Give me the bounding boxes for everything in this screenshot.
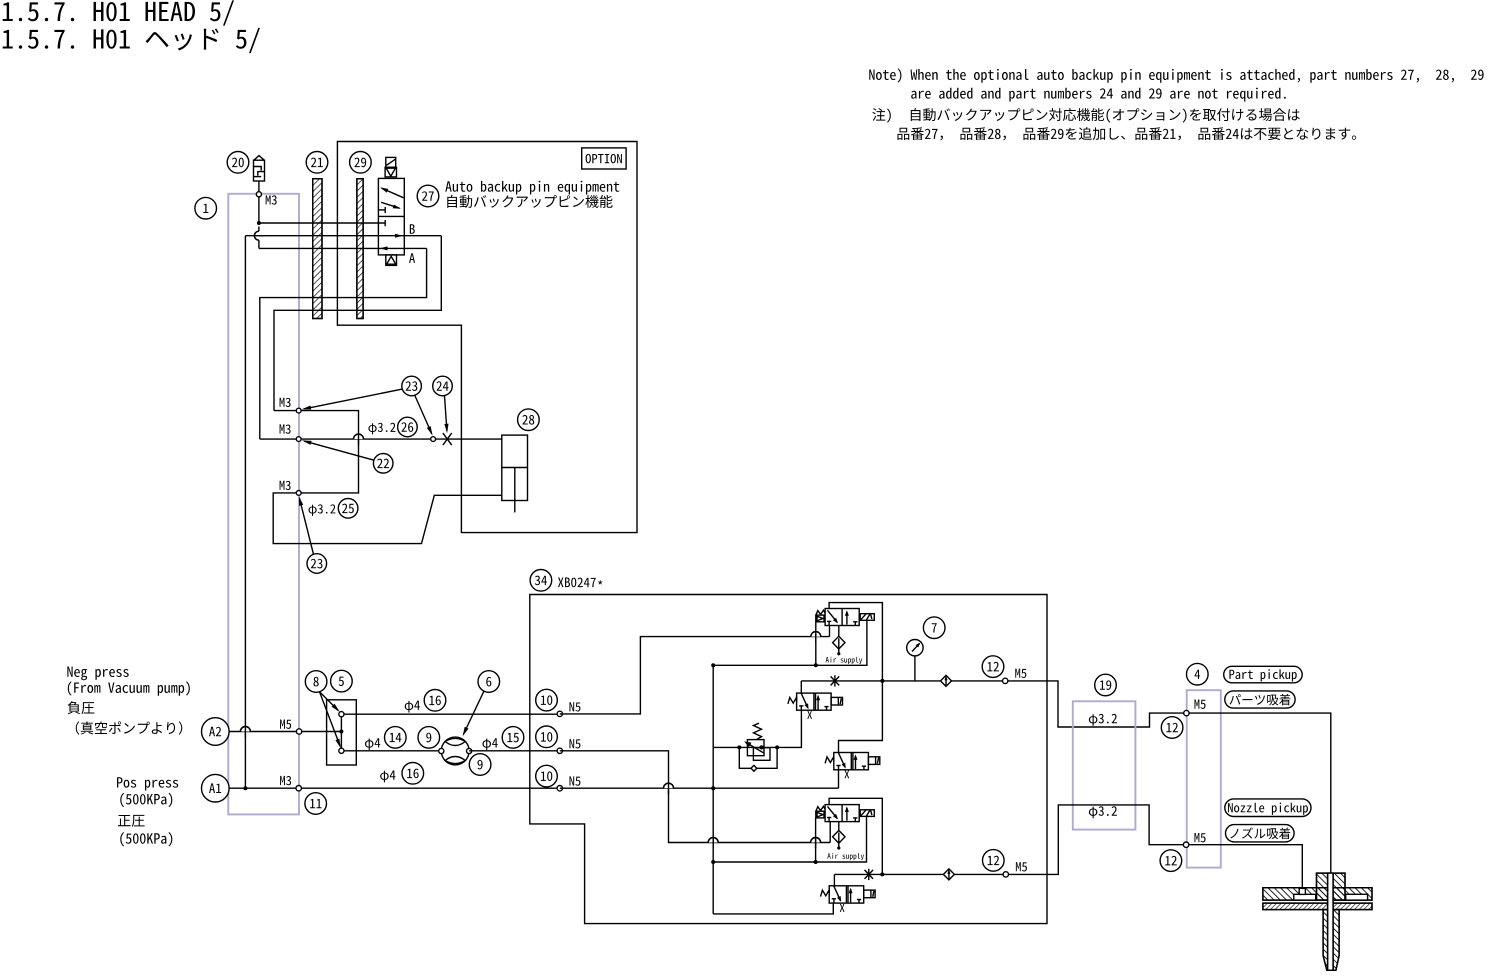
balloon A2	[202, 718, 230, 746]
M3 connector 3	[296, 491, 301, 496]
wire regulator line to valve V2	[713, 710, 801, 747]
pilot line valve V4	[815, 818, 817, 862]
wire pilot rail bottom (valve V4)	[713, 816, 866, 862]
check valve diamond rail 1	[941, 675, 952, 686]
valve 27 top cell crossed arrows	[382, 188, 404, 198]
pressure regulator with relief	[737, 745, 741, 749]
valve 27 body	[378, 178, 404, 255]
valve V1 solenoid box	[860, 614, 874, 621]
label phi4 (14)	[365, 738, 380, 750]
valve V3 left cell diagonal	[839, 753, 846, 767]
label X valve V3	[844, 770, 849, 778]
balloon 9 right	[469, 754, 491, 776]
leader 22 to connector 2	[304, 441, 374, 460]
balloon 10 first	[536, 689, 558, 711]
M3 connector 1	[296, 408, 301, 413]
connector M3 on manifold edge	[296, 786, 301, 791]
wire pilot rail top (valve V1)	[713, 620, 867, 665]
cylinder 28 piston	[502, 467, 528, 469]
vertical supply drop from B-line to A1 rail	[244, 236, 246, 789]
wire A2 to distributor 5	[229, 731, 341, 733]
title line 1	[3, 0, 234, 25]
hop over loop vertical	[354, 434, 364, 439]
balloon 28	[518, 409, 540, 431]
cylinder 28 body	[502, 435, 528, 500]
wire A return path right of valve	[260, 248, 427, 439]
connector M5 rail 2	[1003, 872, 1008, 877]
regulator bypass check diamond	[751, 765, 757, 771]
junction dot supply drop on A1	[243, 786, 247, 790]
valve V4 supply check valve	[838, 822, 840, 834]
wire rail 2 to nozzle pickup port	[1047, 805, 1186, 875]
port label B	[410, 224, 415, 234]
filter component 20 symbol	[254, 160, 265, 181]
label Auto backup pin equipment	[445, 181, 619, 195]
valve V3 body	[834, 753, 869, 770]
stadium Part pickup	[1224, 666, 1303, 683]
nozzle hub hatched	[1317, 873, 1346, 900]
valve V3 elbow to rail 1	[839, 681, 883, 753]
balloon 19	[1095, 674, 1117, 696]
label Air supply V1	[826, 657, 863, 664]
balloon 9 left	[418, 727, 440, 749]
valve 27 blocked port tick bottom cell	[384, 220, 386, 226]
regulator spring	[754, 723, 762, 739]
valve V1 supply check valve	[838, 626, 840, 638]
balloon 26	[398, 417, 418, 437]
connector N5 second	[557, 748, 562, 753]
label XB0247*	[558, 578, 596, 588]
balloon 12 rail 1	[982, 656, 1004, 678]
label M3 connector 3	[280, 481, 291, 490]
valve V5 solenoid box	[864, 890, 875, 898]
balloon 12 part	[1161, 717, 1183, 739]
wire A from valve 27	[259, 247, 427, 249]
bulkhead bar 29 hatched	[357, 179, 363, 319]
valve V5 spring	[821, 890, 830, 897]
orifice frame 19 (light)	[1073, 701, 1136, 829]
wire A1 into XB block to valve V3	[560, 787, 839, 789]
connector M5 rail 1	[1003, 678, 1008, 683]
wire hop on vertical at B crossing	[254, 231, 259, 240]
valve V4 output elbow to rail 2	[829, 798, 882, 874]
junction dot rail 2	[880, 872, 884, 876]
valve V1 pilot triangle box	[816, 615, 824, 622]
distributor block 5	[327, 700, 357, 765]
label X valve V5	[840, 904, 845, 912]
valve 27 solenoid box	[386, 157, 396, 167]
wire phi4 from cross to XB block	[469, 750, 560, 752]
leaders 8 to connectors	[320, 692, 339, 711]
connector N5 first	[557, 711, 562, 716]
nozzle holder upper flange hatched	[1263, 888, 1372, 900]
balloon 10 second	[536, 726, 558, 748]
note text EN line 2	[911, 88, 1286, 102]
OPTION section boundary frame	[337, 142, 637, 533]
note text EN line 1	[869, 68, 1483, 82]
wire B return path right of valve	[274, 236, 441, 411]
wire rail 1 to part pickup port	[1047, 681, 1186, 727]
balloon 16 lower	[402, 763, 424, 785]
label M3	[280, 776, 291, 785]
stadium part pickup JP	[1225, 691, 1295, 708]
nozzle lower plate hatched	[1263, 903, 1372, 910]
OPTION label box	[582, 148, 626, 169]
rail 2 wire	[834, 873, 1047, 875]
valve V2 body	[797, 693, 832, 710]
balloon 12 rail 2	[983, 850, 1005, 872]
leader 23 to connector 1	[304, 389, 402, 409]
valve V2 left cell diagonal	[801, 694, 808, 708]
balloon 7	[923, 617, 945, 639]
XB block boundary frame	[530, 595, 1047, 924]
label phi3.2 (26)	[368, 423, 395, 435]
balloon 14	[385, 727, 407, 749]
connector M3 under filter	[256, 192, 261, 197]
label M3 connector 1	[280, 398, 291, 407]
note text JP line 2	[897, 127, 1356, 140]
label phi4 (16)	[405, 701, 420, 713]
manifold block frame part 1	[228, 194, 299, 815]
valve V4 body	[825, 805, 859, 822]
label M3 top	[266, 195, 277, 204]
wire phi4 middle line to cross 9	[344, 750, 441, 752]
title line 2	[3, 28, 260, 53]
valve V3 right cell flow arrow	[852, 753, 854, 770]
balloon 34	[530, 570, 552, 592]
valve V2 right cell flow arrow	[815, 693, 817, 710]
valve V4 left cell diagonal	[828, 806, 838, 818]
note text JP line 1	[872, 108, 890, 123]
throttle mark on rail 1	[834, 675, 836, 686]
label Neg press	[67, 667, 128, 681]
label Pos press	[117, 777, 178, 790]
leader 24 to plug X	[445, 396, 447, 431]
balloon 15	[502, 727, 524, 749]
wire B to M3 connector 1 and loop to M3 connector 3	[273, 411, 502, 544]
cylinder 28 rod	[514, 468, 516, 513]
valve V5 body	[829, 886, 864, 903]
label phi3.2 upper	[1089, 714, 1117, 726]
wire B from valve 27	[245, 235, 441, 237]
valve 27 bottom spring box	[386, 255, 397, 266]
wire N5 second to valve V4 supply	[560, 751, 830, 843]
valve V2 spring	[788, 697, 797, 704]
valve V4 pilot spring	[816, 806, 825, 811]
balloon 25	[338, 499, 358, 519]
port label A	[409, 253, 415, 263]
balloon 1	[195, 197, 217, 219]
M3 connector 2	[296, 437, 301, 442]
balloon 5	[331, 670, 353, 692]
cross fitting connectors	[439, 748, 444, 753]
wire M3 line to cylinder 28 top	[260, 438, 502, 440]
plug X mark 24	[443, 433, 452, 445]
valve 27 blocked port tick top cell	[378, 209, 385, 211]
wire vacuum supply riser to valve V1	[560, 637, 830, 714]
connector M5 on manifold edge	[296, 729, 301, 734]
outlet connector bottom (8)	[339, 748, 344, 753]
internal link	[340, 714, 342, 751]
label phi4 (15)	[482, 738, 497, 750]
balloon 16 upper	[424, 690, 446, 712]
balloon 12 nozzle	[1160, 850, 1182, 872]
flange slot right	[1346, 894, 1368, 900]
balloon A1	[202, 774, 230, 802]
balloon 23 lower	[307, 554, 327, 574]
balloon 6	[478, 671, 500, 693]
balloon 4	[1187, 663, 1209, 685]
valve V3 solenoid box	[868, 757, 879, 765]
wire crossings through hops	[244, 726, 246, 738]
wire bottom rail to valve V5	[713, 904, 833, 914]
cross fitting 9	[441, 737, 469, 765]
valve V1 left cell diagonal	[828, 610, 838, 622]
rail 1 wire	[801, 680, 1047, 682]
wire entry notch	[1299, 888, 1305, 894]
wire A1 positive pressure line	[229, 787, 560, 789]
stadium nozzle pickup JP	[1226, 825, 1295, 842]
valve V3 spring	[825, 757, 834, 764]
valve 27 spring-return triangle box	[385, 167, 396, 177]
balloon 29	[350, 152, 372, 174]
hop over supply drop	[240, 727, 250, 732]
junction dot pos rail	[711, 786, 715, 790]
balloon 20	[227, 152, 249, 174]
flange slot left	[1294, 894, 1316, 900]
stadium Nozzle pickup	[1225, 799, 1311, 817]
port frame 4 (light)	[1187, 690, 1221, 867]
balloon 27	[417, 185, 439, 207]
wire from filter 20 down to M3 port	[258, 181, 260, 223]
nozzle stem hatched	[1323, 910, 1339, 971]
pressure gauge 7	[914, 656, 916, 681]
connector N5 third	[557, 786, 562, 791]
leader 23 to orifice connector	[415, 396, 432, 434]
valve V1 pilot spring	[816, 610, 825, 615]
connector M5 nozzle	[1183, 842, 1188, 847]
valve V4 right cell flow arrow	[846, 808, 848, 821]
valve V4 pilot triangle box	[816, 811, 824, 818]
balloon 24	[433, 376, 453, 396]
label phi3.2 lower	[1089, 806, 1117, 818]
nozzle bore	[1328, 873, 1334, 970]
wire nozzle pickup to nozzle holder	[1186, 845, 1302, 894]
label phi4 (16) on A1 line	[380, 771, 395, 783]
throttle mark on rail 2	[868, 869, 870, 880]
leader 6 to cross fitting	[464, 691, 484, 734]
outlet connector top (8)	[339, 712, 344, 717]
valve V5 right cell flow arrow	[847, 886, 849, 903]
vertical wire segment filter to A-line	[258, 227, 260, 232]
leader 23 lower to connector 3	[300, 499, 314, 555]
label M3 connector 2	[280, 424, 291, 433]
connector M5 part	[1184, 710, 1189, 715]
pilot line valve V1	[815, 622, 817, 666]
label X valve V2	[807, 711, 812, 719]
junction dot rail 1	[880, 679, 884, 683]
wire part pickup to nozzle holder	[1186, 713, 1330, 873]
label Air supply V4	[827, 853, 864, 860]
check valve diamond rail 2	[943, 869, 954, 880]
balloon 8	[305, 671, 327, 693]
orifice connector 26 on cylinder line	[431, 437, 436, 442]
balloon 10 third	[536, 765, 558, 787]
regulator arrow	[746, 743, 763, 753]
hop over pilot line	[811, 632, 821, 637]
label phi3.2 (25)	[308, 504, 335, 516]
balloon 21	[306, 152, 328, 174]
label M5	[280, 720, 291, 729]
valve V1 output elbow to rail 1	[829, 603, 882, 681]
positive pressure riser	[712, 665, 714, 914]
bulkhead bar 21 hatched	[313, 179, 322, 319]
valve V2 solenoid box	[831, 697, 842, 705]
valve V5 left cell diagonal	[834, 886, 841, 900]
balloon 22	[373, 454, 393, 474]
regulator body squares	[747, 740, 764, 756]
wire P to valve 27 blocked port	[259, 222, 385, 224]
valve V1 body	[825, 609, 859, 626]
wire phi4 upper vacuum line	[344, 713, 560, 715]
junction dot	[257, 221, 261, 225]
valve V1 right cell flow arrow	[846, 612, 848, 625]
balloon 11	[305, 793, 327, 815]
valve V4 solenoid box	[860, 810, 874, 817]
balloon 23	[402, 376, 422, 396]
